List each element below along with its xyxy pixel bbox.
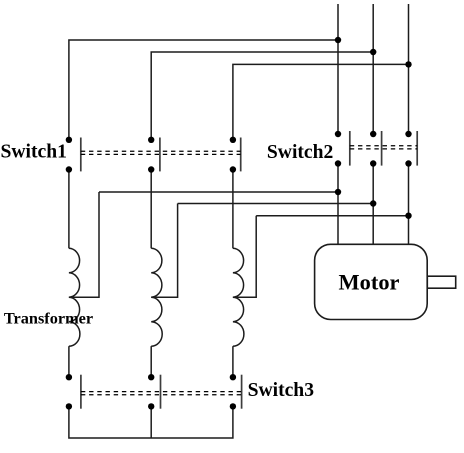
svg-text:Switch3: Switch3 bbox=[248, 380, 315, 401]
svg-text:Switch1: Switch1 bbox=[1, 142, 67, 163]
svg-text:Transformer: Transformer bbox=[4, 308, 93, 327]
svg-text:Motor: Motor bbox=[339, 269, 400, 294]
svg-text:Switch2: Switch2 bbox=[267, 142, 333, 163]
